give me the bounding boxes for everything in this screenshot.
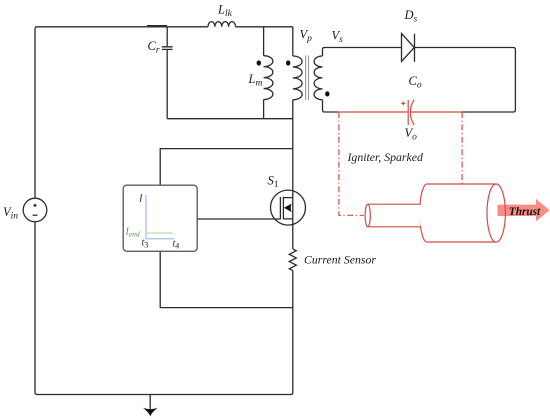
- transformer primary winding Vp: [293, 27, 312, 100]
- svg-text:Thrust: Thrust: [509, 206, 541, 218]
- ground: [143, 395, 158, 417]
- wire: gate drive from controller box: [197, 218, 280, 220]
- svg-text:Igniter, Sparked: Igniter, Sparked: [347, 150, 423, 164]
- thrust arrow: [498, 199, 550, 221]
- svg-text:Llk: Llk: [217, 3, 233, 20]
- wire: red output wire left segment: [338, 111, 408, 113]
- dot: Lm polarity: [257, 60, 261, 65]
- label Igniter, Sparked: [347, 150, 423, 164]
- inductor Llk: [208, 3, 236, 27]
- igniter rod: [365, 204, 421, 227]
- dot: secondary polarity: [325, 91, 329, 96]
- graph Iend level line: [146, 232, 172, 234]
- wire: red output wire right segment: [411, 111, 463, 113]
- wire: secondary loop right side: [415, 48, 516, 113]
- label Vo: [405, 126, 418, 143]
- svg-text:Vin: Vin: [3, 205, 18, 222]
- transformer core: [306, 56, 309, 101]
- svg-text:I: I: [138, 194, 143, 205]
- resistor: current sensor: [289, 249, 376, 271]
- wire: main vertical drain/source line: [292, 100, 294, 249]
- svg-text:Vs: Vs: [332, 29, 344, 46]
- svg-text:Vo: Vo: [405, 126, 418, 143]
- thruster end ellipse (outline over arrow): [487, 184, 505, 242]
- dash-dot lead to thruster (right): [461, 112, 463, 185]
- mosfet S1: [268, 174, 306, 226]
- controller graph box: [123, 185, 197, 251]
- voltage source Vin: [3, 198, 47, 222]
- svg-text:Co: Co: [409, 74, 422, 91]
- wire: top rail from Vin to transformer primary: [35, 26, 293, 199]
- wire: control loop (top, left, bottom): [160, 149, 293, 308]
- inductor Lm (magnetizing): [248, 27, 273, 119]
- graph label Iend: [125, 227, 140, 239]
- svg-text:Cr: Cr: [148, 39, 160, 56]
- capacitor Cr: [148, 27, 173, 119]
- label Thrust: [509, 206, 541, 218]
- svg-text:Ds: Ds: [404, 8, 418, 25]
- svg-text:Vp: Vp: [300, 28, 313, 45]
- capacitor Co (polarized, red): [401, 74, 422, 125]
- wire: left rail below source to ground rail: [35, 222, 293, 395]
- diode Ds: [402, 8, 418, 62]
- svg-text:Lm: Lm: [248, 72, 263, 89]
- transformer secondary winding Vs: [314, 29, 401, 113]
- graph label t4: [173, 239, 180, 251]
- dot: primary polarity: [286, 60, 290, 65]
- graph label t3: [142, 238, 149, 250]
- thruster body (cylinder): [420, 184, 506, 242]
- wire: resonant loop bottom: [167, 118, 293, 120]
- svg-text:S1: S1: [268, 174, 279, 191]
- svg-text:Current Sensor: Current Sensor: [304, 252, 376, 266]
- graph axes: [146, 195, 174, 239]
- graph label I: [138, 194, 143, 205]
- dash-dot lead to igniter (left): [339, 112, 364, 215]
